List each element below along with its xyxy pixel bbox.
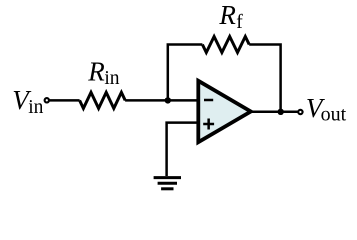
svg-text:R: R bbox=[87, 57, 105, 87]
svg-text:R: R bbox=[218, 0, 236, 30]
svg-text:in: in bbox=[28, 97, 43, 118]
svg-text:out: out bbox=[321, 103, 347, 125]
svg-text:f: f bbox=[236, 12, 243, 33]
svg-text:in: in bbox=[104, 68, 119, 89]
